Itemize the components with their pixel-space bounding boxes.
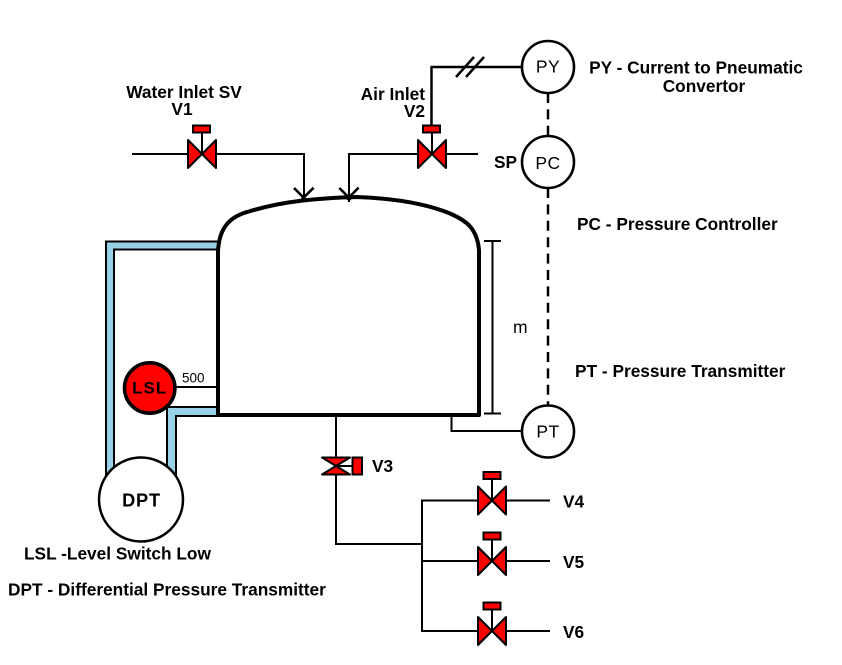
svg-text:LSL -Level Switch Low: LSL -Level Switch Low <box>24 544 211 564</box>
svg-text:V6: V6 <box>563 622 584 642</box>
svg-text:V3: V3 <box>372 456 393 476</box>
svg-text:m: m <box>513 317 528 337</box>
svg-text:SP: SP <box>494 152 517 172</box>
svg-text:V4: V4 <box>563 492 585 512</box>
svg-text:LSL: LSL <box>132 379 167 398</box>
svg-text:V5: V5 <box>563 552 585 572</box>
svg-text:PY: PY <box>536 57 560 77</box>
svg-text:PT - Pressure Transmitter: PT - Pressure Transmitter <box>575 361 786 381</box>
svg-text:DPT: DPT <box>122 491 161 511</box>
svg-text:PT: PT <box>536 422 559 442</box>
svg-text:PY - Current to Pneumatic: PY - Current to Pneumatic <box>589 58 803 78</box>
svg-text:DPT - Differential Pressure Tr: DPT - Differential Pressure Transmitter <box>8 580 326 600</box>
svg-text:Convertor: Convertor <box>663 76 746 96</box>
svg-text:V1: V1 <box>171 99 193 119</box>
svg-text:500: 500 <box>182 371 205 386</box>
svg-text:PC: PC <box>535 153 560 173</box>
svg-text:V2: V2 <box>404 101 425 121</box>
svg-text:PC - Pressure Controller: PC - Pressure Controller <box>577 214 778 234</box>
